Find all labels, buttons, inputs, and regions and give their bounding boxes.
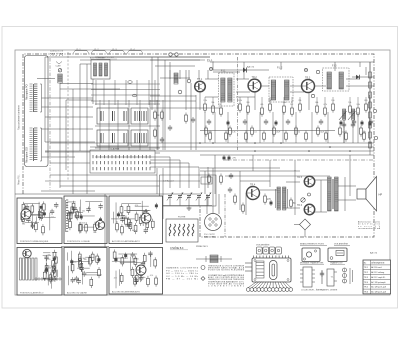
battery case 1	[302, 248, 320, 262]
svg-text:ACCORD BO ANTENNE AUTO: ACCORD BO ANTENNE AUTO	[112, 291, 141, 294]
svg-text:RACCORD: RACCORD	[204, 236, 215, 239]
svg-text:AC 126 préampli: AC 126 préampli	[371, 281, 386, 284]
subcircuit box accord antenne	[109, 196, 163, 244]
note bullet 1	[201, 266, 205, 270]
trimmer bank box C.V.	[160, 175, 217, 206]
svg-text:0,1: 0,1	[254, 132, 257, 134]
mid band rail y130	[200, 130, 335, 132]
transistor TR6	[304, 204, 314, 214]
coil box L2	[131, 108, 148, 124]
svg-text:47k: 47k	[47, 255, 50, 257]
svg-text:4,7k: 4,7k	[82, 223, 85, 225]
svg-text:1k5: 1k5	[83, 258, 86, 260]
svg-text:Prise P.U.: Prise P.U.	[18, 174, 21, 185]
wire grid left	[41, 64, 200, 194]
svg-text:100: 100	[22, 223, 25, 225]
svg-text:0,1: 0,1	[39, 216, 42, 218]
battery holder diagram	[245, 258, 291, 282]
capacitor C3	[191, 117, 195, 123]
mixer cluster wires	[95, 57, 240, 150]
test circle near TR3 a	[316, 70, 319, 73]
wires around coil boxes	[95, 100, 163, 153]
svg-text:4,7k: 4,7k	[150, 275, 153, 277]
svg-text:2n2: 2n2	[134, 230, 137, 232]
filter coil box	[166, 217, 198, 243]
svg-text:VUE ARRIÈRE: VUE ARRIÈRE	[334, 243, 349, 246]
svg-text:FM — 87 — 101 Mc: FM — 87 — 101 Mc	[166, 279, 199, 281]
wires to PU plug	[207, 168, 225, 237]
bracket S2	[40, 128, 42, 161]
svg-text:P.L.2: P.L.2	[277, 67, 283, 70]
svg-text:CL.1: CL.1	[76, 49, 81, 51]
subcircuit box clavier eco	[17, 248, 62, 296]
svg-text:Raccordement antenne: Raccordement antenne	[18, 104, 21, 130]
svg-text:TRANSFO B.F.: TRANSFO B.F.	[330, 262, 343, 265]
svg-text:DÉSIGNATION: DÉSIGNATION	[371, 261, 385, 264]
svg-text:2n2: 2n2	[48, 265, 51, 267]
svg-text:CL.4: CL.4	[130, 49, 135, 51]
svg-text:AF 117 mélang.: AF 117 mélang.	[371, 271, 385, 274]
svg-text:GO — 150 kc — 280 kc: GO — 150 kc — 280 kc	[166, 273, 199, 275]
svg-text:POSITION NOTES FLÉCHÉES: POSITION NOTES FLÉCHÉES	[208, 269, 245, 272]
electrolytic pair near audio input	[223, 155, 226, 161]
supply rail 3	[45, 150, 374, 152]
capacitor row under IF strip	[207, 119, 373, 126]
diode AA174 D2	[352, 75, 374, 79]
resistor R21	[242, 203, 245, 214]
component column right edge	[369, 62, 372, 155]
svg-text:10n: 10n	[82, 211, 85, 213]
bracket S1	[40, 84, 42, 112]
resistor R1	[154, 110, 157, 121]
svg-text:220: 220	[73, 262, 76, 264]
capacitor C18	[229, 173, 233, 179]
diode AA174 D1	[238, 66, 255, 73]
svg-text:POSITION P.U. LONGUE: POSITION P.U. LONGUE	[67, 241, 90, 243]
small C.V. sub box	[201, 177, 212, 184]
mesh above coil boxes	[91, 80, 160, 105]
switch enclosure box	[25, 56, 49, 167]
svg-text:220: 220	[70, 212, 73, 214]
battery case 2	[328, 248, 347, 262]
svg-text:Réception GO: Réception GO	[26, 147, 29, 163]
svg-text:AF 117 ampli F.I.: AF 117 ampli F.I.	[371, 276, 386, 279]
resistor R18	[208, 174, 211, 185]
output wires	[314, 155, 356, 212]
svg-text:0,1: 0,1	[145, 224, 148, 226]
svg-text:TR.4: TR.4	[250, 184, 256, 187]
capacitor C20	[228, 187, 232, 193]
svg-text:OC — 5,9 Mc — 16 Mc: OC — 5,9 Mc — 16 Mc	[166, 276, 199, 278]
supply rail 1	[50, 142, 374, 144]
volume potentiometer P1	[339, 109, 347, 128]
electrolytic C30	[369, 121, 372, 127]
svg-text:GAMMES COUVERTES: GAMMES COUVERTES	[166, 267, 199, 270]
capacitor C1	[168, 125, 172, 131]
svg-text:BRANCHEMENTS PILES: BRANCHEMENTS PILES	[300, 243, 325, 246]
rear panel squares	[256, 244, 281, 255]
svg-text:100: 100	[93, 232, 96, 234]
second resistor row	[205, 126, 367, 137]
subcircuit box accord ou cadre	[64, 248, 107, 296]
output transformer T2	[328, 177, 339, 211]
svg-text:1k: 1k	[298, 132, 300, 134]
note: contacts position	[50, 50, 63, 58]
svg-text:220: 220	[47, 259, 50, 261]
test circle near TR3 b	[311, 94, 314, 97]
svg-text:AC 128 push-pull: AC 128 push-pull	[371, 286, 386, 289]
IF transformer F.I.3	[323, 65, 350, 92]
svg-text:+9V: +9V	[232, 158, 236, 160]
wire harness bottom left	[15, 168, 200, 248]
speaker HP	[357, 177, 382, 212]
switch name labels	[73, 49, 89, 54]
rail 5	[200, 167, 280, 169]
transistor TR5	[304, 176, 314, 186]
test point TP2	[304, 68, 307, 71]
svg-text:CHAÎNE B.F.: CHAÎNE B.F.	[170, 247, 184, 250]
svg-text:PRISE 230 V: PRISE 230 V	[196, 246, 208, 248]
pinout socket 3	[343, 268, 353, 284]
tone potentiometer P2	[348, 109, 356, 128]
svg-text:4,7k: 4,7k	[135, 205, 138, 207]
mid resistors	[209, 131, 366, 142]
piano key switch diagram	[20, 258, 38, 280]
svg-text:AF 116 oscil.: AF 116 oscil.	[371, 266, 382, 269]
mid band vertical stubs	[205, 112, 358, 143]
svg-text:4,7k: 4,7k	[232, 132, 235, 134]
supply rail 2	[90, 146, 374, 148]
top feed wires	[45, 57, 210, 142]
switch bank S1 contacts	[34, 84, 37, 111]
AVC rail dash-dot	[225, 159, 374, 161]
test point circle a	[373, 109, 376, 112]
lamp circles fan row	[246, 282, 292, 292]
subcircuit box secteur	[109, 248, 163, 295]
electrolytic C21	[270, 200, 273, 206]
svg-text:TR.1: TR.1	[197, 78, 203, 81]
battery text block	[358, 221, 381, 231]
coil box L4	[131, 130, 148, 146]
svg-text:consommation 12 mA: consommation 12 mA	[358, 227, 381, 230]
junction circle TR5/TR6	[308, 193, 311, 196]
trimmer CV1	[187, 79, 191, 83]
transistor TR1	[195, 81, 206, 92]
svg-text:TR.5: TR.5	[364, 287, 368, 289]
gammes couvertes text	[166, 267, 199, 281]
parts table	[363, 260, 391, 294]
svg-text:TR.3: TR.3	[364, 277, 368, 279]
thermistor R24	[301, 198, 305, 202]
test point circle b	[374, 136, 377, 139]
svg-text:10n: 10n	[97, 261, 100, 263]
svg-text:CL.2: CL.2	[94, 49, 99, 51]
transistor TR4 driver	[247, 187, 260, 200]
svg-text:TR.3: TR.3	[305, 77, 311, 80]
driver transformer T1	[276, 187, 288, 210]
pinout socket 2	[320, 269, 338, 292]
svg-text:AA 174: AA 174	[370, 252, 378, 255]
svg-text:2n2: 2n2	[114, 278, 117, 280]
svg-text:No: No	[364, 262, 366, 264]
svg-text:Réception PO: Réception PO	[26, 84, 29, 100]
IF transformer F.I.1	[219, 70, 235, 107]
resistor R20	[234, 194, 237, 205]
transistor in clavier box	[23, 249, 31, 257]
svg-text:TR.2: TR.2	[364, 272, 368, 274]
supply rail 4	[200, 154, 374, 156]
svg-text:VUE ARRIÈRE: VUE ARRIÈRE	[256, 244, 270, 247]
svg-text:ACCORD OU CADRE: ACCORD OU CADRE	[67, 292, 87, 295]
svg-text:P.L.1: P.L.1	[207, 59, 213, 62]
trimmer capacitors row	[163, 70, 212, 206]
svg-text:F.I.3: F.I.3	[332, 65, 337, 68]
subcircuit box tourne-disque	[17, 198, 62, 244]
right edge wires	[344, 95, 370, 143]
svg-text:CLAVIER: CLAVIER	[110, 148, 120, 151]
resistor R23	[290, 198, 293, 209]
resistor R2	[161, 110, 164, 121]
svg-text:TR.6: TR.6	[364, 292, 368, 294]
switch contact strip in PU box	[66, 200, 68, 231]
padder 330	[128, 81, 132, 84]
feed wires into trimmer bank	[95, 157, 208, 188]
resistor R3	[154, 128, 157, 139]
partition dashed x68	[67, 52, 69, 180]
resistor R4	[185, 113, 188, 124]
pinout socket 1	[300, 267, 323, 292]
switch bank S2 contacts	[34, 128, 37, 160]
svg-text:TR.6: TR.6	[297, 205, 303, 207]
transistor TR2	[248, 79, 261, 92]
connector PU plug	[204, 214, 222, 239]
coil box L3	[97, 130, 128, 146]
dial lamps P.L.1	[169, 53, 178, 56]
IF transformer F.I.2	[269, 67, 293, 103]
svg-text:TRANSFO. DRIVER: TRANSFO. DRIVER	[320, 289, 338, 292]
junction dots	[199, 142, 371, 152]
padder 410	[132, 94, 136, 97]
svg-text:TR.2: TR.2	[252, 76, 258, 79]
IF strip wires	[200, 62, 374, 110]
svg-text:POSITION TOURNE-DISQUES: POSITION TOURNE-DISQUES	[20, 241, 49, 243]
band switch contact block	[90, 150, 155, 173]
svg-text:CL.3: CL.3	[112, 49, 117, 51]
connector pins ticks top	[254, 256, 289, 259]
svg-text:0,1: 0,1	[51, 217, 54, 219]
resistor R22	[264, 194, 267, 205]
svg-text:TR.1: TR.1	[364, 267, 368, 269]
svg-text:TR.5: TR.5	[297, 177, 303, 179]
driver stage wires	[240, 170, 300, 215]
svg-text:CONVENTIONNEL: CONVENTIONNEL	[208, 286, 245, 288]
mains dropper component	[196, 246, 232, 263]
svg-text:AC 128 push-pull: AC 128 push-pull	[371, 291, 386, 294]
svg-text:HP: HP	[379, 193, 383, 197]
coil box L1	[97, 108, 128, 124]
trimmer CV2	[178, 90, 182, 94]
svg-text:FILTRE: FILTRE	[178, 217, 186, 219]
rectifier diamond D3	[294, 219, 311, 237]
resistor row under IF strip	[203, 97, 367, 117]
audio region rails	[45, 155, 330, 194]
capacitor C2	[160, 137, 164, 143]
note bullet 2	[201, 277, 205, 281]
border frame	[15, 50, 390, 295]
svg-text:10n: 10n	[143, 277, 146, 279]
test point TP1	[209, 67, 212, 70]
subcircuit box position PU	[64, 196, 107, 244]
ground under trimmer bank	[187, 206, 192, 211]
svg-text:POSITION CLAVIER ÉCO: POSITION CLAVIER ÉCO	[20, 292, 44, 295]
svg-text:10n: 10n	[133, 261, 136, 263]
screen partition dash-dot	[49, 58, 51, 190]
transistor TR3	[302, 80, 315, 93]
svg-text:C.A.F.: C.A.F.	[56, 65, 62, 68]
svg-text:AA 174: AA 174	[247, 66, 255, 69]
chassis partition dash-dot mid	[237, 57, 239, 150]
resistor R19	[220, 174, 223, 185]
svg-text:PO — 510 kc — 1620 kc: PO — 510 kc — 1620 kc	[166, 270, 199, 272]
chassis boundary dash-dot	[23, 54, 374, 237]
svg-text:10n: 10n	[51, 280, 54, 282]
contact circles row	[35, 278, 61, 280]
oscillator coil L5	[174, 73, 178, 84]
svg-text:ACCORD FO ANTENNE AUTO: ACCORD FO ANTENNE AUTO	[112, 240, 140, 243]
svg-text:TR.4: TR.4	[364, 282, 368, 284]
svg-text:MONTAGE TRANSISTORS: MONTAGE TRANSISTORS	[300, 262, 324, 265]
